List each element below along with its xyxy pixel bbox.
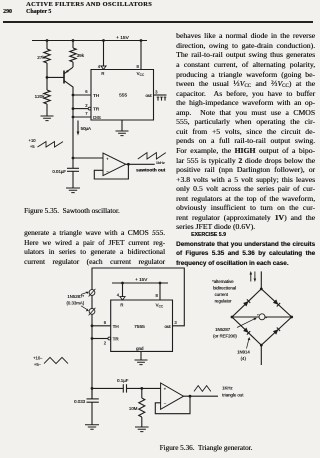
svg-text:2: 2 [104,341,107,346]
svg-text:+ 15V: + 15V [116,35,129,41]
svg-text:8: 8 [155,293,158,298]
svg-text:0.01µF: 0.01µF [52,169,66,174]
svg-text:50µA: 50µA [81,126,91,131]
svg-text:+5−: +5− [34,362,42,367]
svg-text:TR: TR [113,337,120,342]
svg-text:bidirectional: bidirectional [213,286,236,291]
svg-text:120k: 120k [35,94,46,99]
svg-text:+: + [164,387,167,392]
svg-text:3: 3 [155,89,158,94]
svg-text:2: 2 [85,103,88,108]
svg-text:VCC: VCC [156,302,164,308]
svg-text:TH: TH [93,93,99,98]
svg-text:triangle out: triangle out [222,393,244,398]
svg-text:−: − [164,401,167,406]
svg-text:out: out [145,93,152,98]
svg-text:+5: +5 [30,144,35,149]
svg-text:39k: 39k [77,53,85,58]
svg-text:+: + [106,156,109,161]
svg-text:current: current [215,292,229,297]
svg-text:−: − [106,169,109,174]
svg-text:*alternative: *alternative [212,279,234,284]
svg-text:27k: 27k [37,55,45,60]
svg-text:3: 3 [174,320,177,325]
svg-text:VCC: VCC [137,71,145,77]
svg-text:sawtooth out: sawtooth out [136,167,166,172]
svg-text:4: 4 [98,64,101,69]
svg-text:+ 15V: + 15V [135,277,148,282]
svg-text:1N5287: 1N5287 [215,327,231,332]
svg-text:4: 4 [117,292,120,297]
svg-text:gnd: gnd [136,346,144,351]
svg-text:1kHz: 1kHz [156,160,165,165]
svg-text:(4): (4) [241,356,247,361]
svg-text:10M: 10M [129,406,138,411]
svg-text:1N914: 1N914 [237,350,250,355]
svg-text:regulator: regulator [215,299,233,304]
svg-text:6: 6 [85,89,88,94]
svg-text:6: 6 [104,320,107,325]
svg-text:7555: 7555 [134,324,145,330]
svg-text:TH: TH [113,324,119,329]
svg-text:1KHz: 1KHz [222,385,233,390]
svg-text:+10−: +10− [33,356,43,361]
svg-text:0.033: 0.033 [74,399,86,404]
svg-text:R: R [120,302,123,307]
svg-text:555: 555 [119,93,127,99]
svg-text:TR: TR [93,107,100,112]
svg-text:7: 7 [85,111,88,116]
svg-text:0.1µF: 0.1µF [117,378,129,383]
svg-text:out: out [164,324,171,329]
svg-text:+10: +10 [28,138,36,143]
svg-text:DIS: DIS [93,115,101,120]
svg-text:(or REF200): (or REF200) [213,334,237,339]
svg-text:(0.33mA): (0.33mA) [66,301,84,306]
svg-text:8: 8 [136,64,139,69]
svg-text:R: R [101,71,104,76]
